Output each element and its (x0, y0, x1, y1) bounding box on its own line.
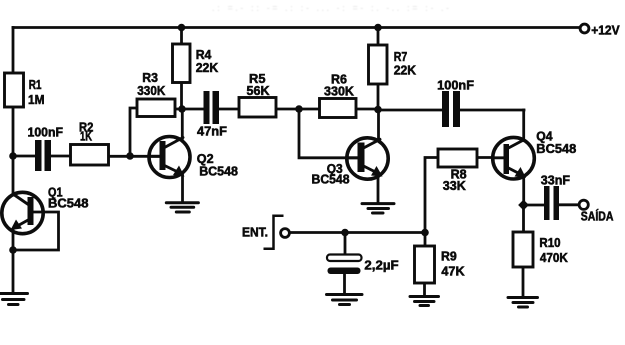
svg-text:SAÍDA: SAÍDA (581, 208, 614, 223)
svg-text:R4: R4 (196, 48, 212, 62)
svg-text:100nF: 100nF (437, 79, 474, 93)
svg-text:R1: R1 (29, 78, 42, 92)
svg-text:1M: 1M (28, 93, 45, 107)
svg-text:R9: R9 (441, 250, 457, 264)
svg-text:47K: 47K (441, 265, 464, 279)
svg-text:R10: R10 (539, 236, 560, 250)
svg-text:56K: 56K (247, 84, 270, 98)
svg-text:R3: R3 (142, 71, 158, 85)
svg-text:ENT.: ENT. (242, 226, 268, 240)
svg-text:33K: 33K (443, 179, 466, 193)
svg-text:22K: 22K (394, 64, 416, 78)
svg-text:BC548: BC548 (536, 142, 576, 156)
svg-text:330K: 330K (137, 84, 165, 98)
svg-text:470K: 470K (540, 251, 568, 265)
svg-text:BC548: BC548 (312, 173, 350, 187)
svg-text:100nF: 100nF (28, 126, 64, 140)
svg-text:22K: 22K (196, 61, 219, 75)
svg-text:BC548: BC548 (199, 165, 238, 179)
svg-text:33nF: 33nF (541, 173, 571, 187)
svg-text:1K: 1K (80, 130, 92, 144)
svg-text:BC548: BC548 (48, 196, 89, 210)
svg-text:+12V: +12V (591, 24, 620, 38)
svg-text:R7: R7 (394, 50, 408, 64)
svg-text:.: =.- :: -= .: :- ... -: =- :: .: =.- :: -= .: :- ... -: =- :. -.. := :… (212, 3, 452, 13)
svg-text:330K: 330K (324, 85, 354, 99)
svg-text:2,2µF: 2,2µF (364, 259, 399, 273)
svg-text:47nF: 47nF (197, 125, 227, 139)
